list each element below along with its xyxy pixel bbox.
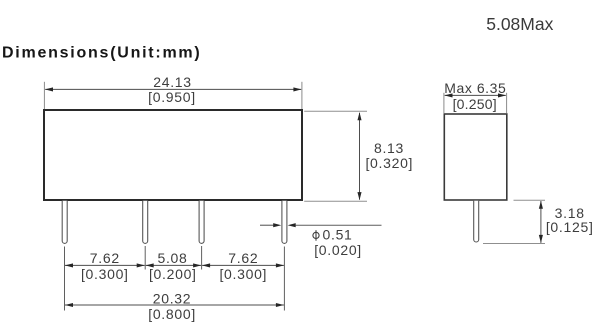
pin 3 outline [199,201,204,244]
arrowhead at pin1 row1 [65,263,73,267]
svg-text:0.51: 0.51 [323,227,353,243]
extension line below pin 2 [144,246,146,270]
svg-text:[0.125]: [0.125] [546,219,594,235]
svg-text:7.62: 7.62 [90,250,120,266]
svg-text:[0.020]: [0.020] [314,242,362,258]
arrowhead left of 24.13 [45,87,53,91]
dimension line 5.08 pin2-pin3 [146,264,201,266]
dimension line 7.62 pin3-pin4 [202,264,284,266]
extension line above side-view left corner [443,93,445,113]
extension line at pin tip level for 3.18 [483,243,545,245]
svg-text:[0.320]: [0.320] [365,155,413,171]
svg-text:7.62: 7.62 [228,250,258,266]
pin 4 outline [282,201,287,244]
svg-text:[0.950]: [0.950] [148,89,196,105]
svg-text:8.13: 8.13 [374,140,404,156]
arrowhead at pin4 row2 [276,303,284,307]
side view pin outline [474,201,479,242]
arrowhead top of 8.13 [357,112,361,120]
svg-text:20.32: 20.32 [153,290,192,306]
svg-text:[0.250]: [0.250] [453,96,497,112]
arrowhead left at pin2 row1 [137,263,145,267]
svg-text:Dimensions(Unit:mm): Dimensions(Unit:mm) [2,45,201,62]
dimension line 24.13 [45,88,301,90]
leader line left of pin 4 diameter [260,224,274,226]
arrowhead left of Max 6.35 [444,93,452,97]
arrowhead right at pin2 row1 [146,263,154,267]
svg-text:24.13: 24.13 [153,74,192,90]
diameter symbol phi [313,230,319,241]
dimension line 8.13 [359,113,361,200]
arrowhead left at pin3 row1 [193,263,201,267]
dimension line 7.62 pin1-pin2 [65,264,145,266]
svg-text:5.08Max: 5.08Max [486,14,553,34]
arrowhead at pin4 row1 [276,263,284,267]
arrowhead bottom of 3.18 [539,235,543,243]
extension line right of bottom edge for 8.13 [304,200,367,202]
extension line above side-view right corner [506,93,508,113]
dimension line 3.18 [540,201,542,243]
extension line right of top edge for 8.13 [304,110,367,112]
arrowhead right at pin3 row1 [202,263,210,267]
extension line below pin 4 [283,247,285,311]
arrowhead at pin1 row2 [65,303,73,307]
svg-text:5.08: 5.08 [157,250,187,266]
pin 1 outline [62,201,67,244]
svg-text:Max 6.35: Max 6.35 [444,80,506,96]
arrowhead bottom of 8.13 [357,192,361,200]
arrowhead right of Max 6.35 [498,93,506,97]
extension line above left corner for 24.13 [43,82,45,109]
dimension line Max 6.35 [445,94,506,96]
arrowhead pointing right at pin 4 [273,223,281,227]
arrowhead right of 24.13 [293,87,301,91]
arrowhead pointing left at pin 4 [288,223,296,227]
pin 2 outline [143,201,148,244]
extension line right of side-view bottom edge for 3.18 [514,199,546,201]
extension line below pin 1 [64,247,66,311]
relay body outline, front view [44,110,302,200]
svg-text:[0.200]: [0.200] [149,266,197,282]
svg-text:[0.300]: [0.300] [219,266,267,282]
svg-text:[0.300]: [0.300] [81,266,129,282]
arrowhead top of 3.18 [539,201,543,209]
relay body outline, side view [444,114,507,200]
leader line right of pin 4 diameter [296,224,382,226]
dimension line 20.32 [65,304,284,306]
extension line above right corner for 24.13 [301,82,303,109]
svg-text:[0.800]: [0.800] [148,306,196,322]
extension line below pin 3 [201,246,203,270]
